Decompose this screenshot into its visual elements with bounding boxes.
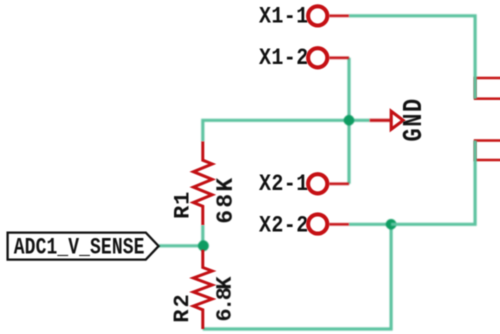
svg-text:6.8K: 6.8K [213, 276, 238, 322]
svg-text:68K: 68K [213, 176, 239, 224]
power symbol GND triangle [391, 111, 403, 129]
svg-text:X2-2: X2-2 [259, 213, 309, 239]
connector pin X1-2 [308, 48, 349, 67]
connector box J1 (cut off at right edge) [475, 78, 500, 99]
power symbol GND pin [370, 119, 392, 122]
wire R1 bottom to node [201, 225, 204, 246]
global label ADC1_V_SENSE flag outline [8, 233, 159, 260]
resistor R1 [193, 141, 212, 225]
svg-text:R1: R1 [170, 191, 195, 219]
junction X2-2 node [386, 219, 397, 230]
wire X1-2 down to X2-1 [347, 58, 350, 184]
resistor R2 [193, 250, 212, 329]
wire R2 bottom along page bottom up to X2-2 node [203, 224, 391, 329]
wire GND horizontal to R1 top [203, 120, 370, 141]
svg-text:X1-1: X1-1 [259, 4, 309, 30]
svg-text:R2: R2 [170, 292, 195, 322]
junction node R1/R2/label [198, 240, 209, 251]
svg-text:X1-2: X1-2 [259, 46, 309, 72]
svg-text:GND: GND [400, 97, 429, 141]
junction on GND line [344, 115, 355, 126]
wire from label ADC1_V_SENSE to node [159, 244, 204, 247]
wire X2-2 to junction [349, 223, 391, 226]
wire X1-1 to box J1 [349, 16, 475, 99]
connector box J2 (cut off at right edge) [475, 141, 500, 161]
svg-text:X2-1: X2-1 [259, 172, 309, 198]
connector pin X1-1 [308, 6, 349, 25]
connector pin X2-1 [308, 174, 349, 193]
connector pin X2-2 [308, 214, 349, 233]
svg-text:ADC1_V_SENSE: ADC1_V_SENSE [14, 236, 145, 262]
wire X2-2 node to box J2 [391, 141, 475, 225]
